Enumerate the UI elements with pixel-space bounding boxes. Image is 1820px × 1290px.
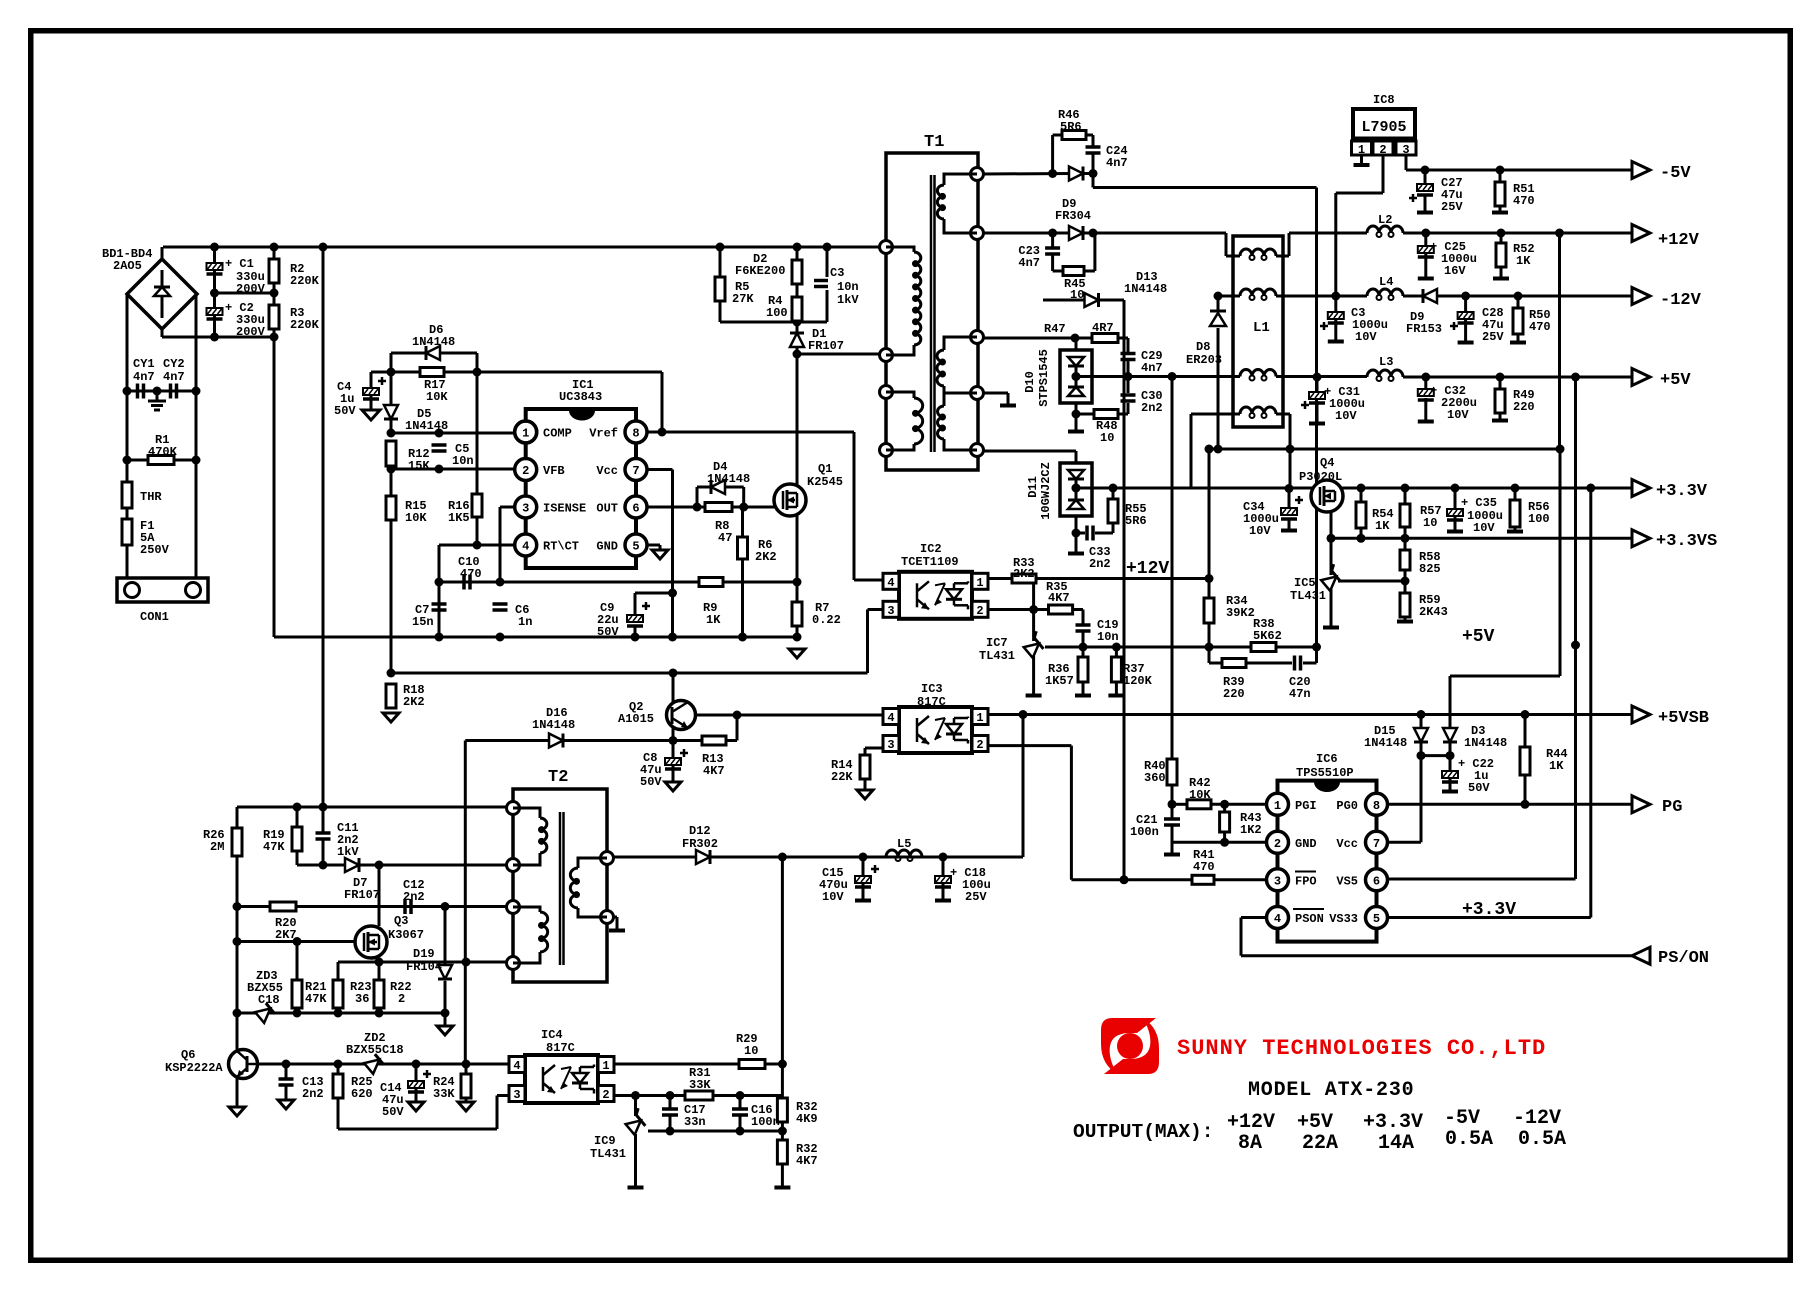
svg-text:4K7: 4K7 [1048, 591, 1070, 605]
svg-text:OUT: OUT [596, 502, 618, 516]
svg-text:3: 3 [887, 604, 894, 618]
svg-text:1N4148: 1N4148 [412, 335, 455, 349]
svg-text:2n2: 2n2 [1141, 401, 1163, 415]
svg-text:2M: 2M [210, 840, 224, 854]
svg-text:10GWJ2CZ: 10GWJ2CZ [1039, 462, 1053, 520]
svg-text:50V: 50V [640, 775, 662, 789]
svg-text:470: 470 [1529, 320, 1551, 334]
svg-text:1: 1 [1358, 143, 1365, 157]
svg-text:825: 825 [1419, 562, 1441, 576]
svg-text:+3.3V: +3.3V [1363, 1111, 1423, 1134]
svg-text:2n2: 2n2 [1089, 557, 1111, 571]
svg-text:10: 10 [1100, 431, 1114, 445]
svg-text:R47: R47 [1044, 322, 1066, 336]
svg-text:50V: 50V [334, 404, 356, 418]
svg-text:3: 3 [1274, 874, 1281, 888]
svg-text:4n7: 4n7 [133, 370, 155, 384]
svg-text:10K: 10K [426, 390, 448, 404]
svg-text:2: 2 [976, 738, 983, 752]
svg-text:5: 5 [632, 540, 639, 554]
svg-text:33n: 33n [684, 1115, 706, 1129]
svg-text:1: 1 [976, 576, 983, 590]
svg-text:Q1: Q1 [818, 462, 832, 476]
svg-text:GND: GND [596, 540, 618, 554]
svg-text:4K7: 4K7 [796, 1154, 818, 1168]
svg-text:100: 100 [1528, 512, 1550, 526]
svg-text:4n7: 4n7 [1018, 256, 1040, 270]
svg-text:16V: 16V [1444, 264, 1466, 278]
svg-text:ISENSE: ISENSE [543, 502, 586, 516]
svg-text:IC3: IC3 [921, 682, 943, 696]
svg-text:15n: 15n [412, 615, 434, 629]
svg-text:22A: 22A [1302, 1132, 1338, 1155]
svg-text:2K43: 2K43 [1419, 605, 1448, 619]
svg-text:100n: 100n [1130, 825, 1159, 839]
svg-text:1kV: 1kV [337, 845, 359, 859]
svg-text:COMP: COMP [543, 427, 572, 441]
svg-text:10K: 10K [1189, 788, 1211, 802]
svg-text:47n: 47n [1289, 687, 1311, 701]
svg-text:PG0: PG0 [1336, 799, 1358, 813]
svg-text:4n7: 4n7 [1106, 156, 1128, 170]
svg-text:25V: 25V [1482, 330, 1504, 344]
svg-text:IC2: IC2 [920, 542, 942, 556]
svg-text:L5: L5 [897, 837, 911, 851]
svg-text:+5V: +5V [1660, 371, 1691, 390]
svg-text:A1015: A1015 [618, 712, 654, 726]
svg-text:L4: L4 [1379, 275, 1393, 289]
svg-text:2: 2 [1274, 837, 1281, 851]
svg-text:1N4148: 1N4148 [1464, 736, 1507, 750]
svg-text:220: 220 [1513, 400, 1535, 414]
svg-text:-5V: -5V [1444, 1107, 1480, 1130]
svg-text:IC7: IC7 [986, 636, 1008, 650]
svg-text:0.22: 0.22 [812, 613, 841, 627]
svg-text:1: 1 [602, 1059, 609, 1073]
svg-text:7: 7 [632, 464, 639, 478]
svg-text:817C: 817C [546, 1041, 575, 1055]
svg-text:22K: 22K [831, 770, 853, 784]
svg-text:47K: 47K [263, 840, 285, 854]
svg-text:L3: L3 [1379, 355, 1393, 369]
svg-text:1K57: 1K57 [1045, 674, 1074, 688]
svg-text:4: 4 [513, 1059, 520, 1073]
svg-text:2: 2 [602, 1088, 609, 1102]
svg-text:+5V: +5V [1297, 1111, 1333, 1134]
svg-text:4n7: 4n7 [163, 370, 185, 384]
svg-text:CON1: CON1 [140, 610, 169, 624]
svg-text:+3.3VS: +3.3VS [1656, 532, 1717, 551]
svg-text:7: 7 [1373, 837, 1380, 851]
svg-text:1: 1 [1274, 799, 1281, 813]
svg-text:2K2: 2K2 [1013, 567, 1035, 581]
svg-text:33K: 33K [689, 1078, 711, 1092]
svg-text:100n: 100n [751, 1115, 780, 1129]
svg-text:5: 5 [1373, 912, 1380, 926]
svg-text:1n: 1n [518, 615, 532, 629]
svg-text:L1: L1 [1253, 320, 1270, 336]
svg-text:-12V: -12V [1660, 291, 1702, 310]
svg-text:C18: C18 [258, 993, 280, 1007]
svg-text:50V: 50V [597, 625, 619, 639]
svg-text:SUNNY TECHNOLOGIES CO.,LTD: SUNNY TECHNOLOGIES CO.,LTD [1177, 1036, 1546, 1061]
svg-text:25V: 25V [1441, 200, 1463, 214]
svg-text:FR304: FR304 [1055, 209, 1091, 223]
svg-text:50V: 50V [382, 1105, 404, 1119]
svg-text:6: 6 [1373, 874, 1380, 888]
svg-text:8: 8 [632, 427, 639, 441]
svg-text:FR107: FR107 [344, 888, 380, 902]
svg-text:Q3: Q3 [394, 914, 408, 928]
svg-text:C3: C3 [830, 266, 844, 280]
svg-text:+5V: +5V [1462, 627, 1495, 647]
svg-text:RT\CT: RT\CT [543, 540, 579, 554]
svg-text:817C: 817C [917, 695, 946, 709]
svg-text:D10: D10 [1023, 371, 1037, 393]
svg-text:360: 360 [1144, 771, 1166, 785]
svg-text:220K: 220K [290, 318, 320, 332]
svg-text:IC9: IC9 [594, 1134, 616, 1148]
svg-text:620: 620 [351, 1087, 373, 1101]
svg-text:-12V: -12V [1513, 1107, 1561, 1130]
svg-text:+5VSB: +5VSB [1658, 709, 1709, 728]
svg-text:5R6: 5R6 [1060, 120, 1082, 134]
svg-text:27K: 27K [732, 292, 754, 306]
svg-text:10n: 10n [1097, 630, 1119, 644]
svg-text:BZX55C18: BZX55C18 [346, 1043, 404, 1057]
svg-text:PSON: PSON [1295, 912, 1324, 926]
svg-text:MODEL ATX-230: MODEL ATX-230 [1248, 1079, 1414, 1102]
svg-text:Q6: Q6 [181, 1048, 195, 1062]
svg-text:+ C35: + C35 [1461, 496, 1497, 510]
svg-text:UC3843: UC3843 [559, 390, 602, 404]
svg-text:TL431: TL431 [1290, 589, 1326, 603]
svg-text:+12V: +12V [1658, 231, 1700, 250]
svg-text:100: 100 [766, 306, 788, 320]
svg-text:15K: 15K [408, 459, 430, 473]
svg-text:D11: D11 [1026, 476, 1040, 498]
svg-text:Q4: Q4 [1320, 456, 1334, 470]
svg-text:1N4148: 1N4148 [532, 718, 575, 732]
svg-text:IC5: IC5 [1294, 576, 1316, 590]
svg-text:250V: 250V [140, 543, 170, 557]
svg-text:10: 10 [1423, 516, 1437, 530]
svg-text:4K7: 4K7 [703, 764, 725, 778]
svg-text:200V: 200V [236, 282, 266, 296]
svg-text:10V: 10V [1249, 524, 1271, 538]
svg-text:10V: 10V [1447, 408, 1469, 422]
svg-text:4: 4 [887, 711, 894, 725]
svg-text:2: 2 [976, 604, 983, 618]
svg-text:2n2: 2n2 [403, 890, 425, 904]
svg-text:TPS5510P: TPS5510P [1296, 766, 1354, 780]
svg-text:1N4148: 1N4148 [1124, 282, 1167, 296]
svg-text:TL431: TL431 [979, 649, 1015, 663]
svg-text:Vref: Vref [589, 427, 618, 441]
svg-text:VS5: VS5 [1336, 874, 1358, 888]
svg-text:TCET1109: TCET1109 [901, 555, 959, 569]
svg-text:-5V: -5V [1660, 164, 1691, 183]
svg-text:10n: 10n [837, 280, 859, 294]
svg-text:10V: 10V [822, 890, 844, 904]
svg-text:10: 10 [1070, 288, 1084, 302]
svg-text:47K: 47K [305, 992, 327, 1006]
svg-text:PS/ON: PS/ON [1658, 949, 1709, 968]
svg-text:1N4148: 1N4148 [1364, 736, 1407, 750]
svg-text:10V: 10V [1473, 521, 1495, 535]
svg-text:T2: T2 [548, 768, 568, 787]
svg-text:GND: GND [1295, 837, 1317, 851]
svg-text:2: 2 [398, 992, 405, 1006]
svg-text:0.5A: 0.5A [1518, 1128, 1566, 1151]
svg-text:TL431: TL431 [590, 1147, 626, 1161]
svg-text:220K: 220K [290, 274, 320, 288]
svg-text:Vcc: Vcc [596, 464, 618, 478]
svg-text:FR153: FR153 [1406, 322, 1442, 336]
svg-text:200V: 200V [236, 325, 266, 339]
svg-text:2K7: 2K7 [275, 928, 297, 942]
svg-text:1K: 1K [1375, 519, 1390, 533]
svg-text:2K2: 2K2 [755, 550, 777, 564]
svg-text:14A: 14A [1378, 1132, 1414, 1155]
svg-text:0.5A: 0.5A [1445, 1128, 1493, 1151]
svg-text:D19: D19 [413, 947, 435, 961]
svg-text:PGI: PGI [1295, 799, 1317, 813]
svg-text:470: 470 [1193, 860, 1215, 874]
svg-text:4K9: 4K9 [796, 1112, 818, 1126]
svg-text:+3.3V: +3.3V [1462, 900, 1516, 920]
svg-text:4n7: 4n7 [1141, 361, 1163, 375]
svg-text:K3067: K3067 [388, 928, 424, 942]
svg-text:IC4: IC4 [541, 1028, 563, 1042]
svg-text:36: 36 [355, 992, 369, 1006]
svg-text:50V: 50V [1468, 781, 1490, 795]
svg-text:10n: 10n [452, 454, 474, 468]
svg-text:10V: 10V [1355, 330, 1377, 344]
svg-text:1K: 1K [1549, 759, 1564, 773]
svg-text:ER203: ER203 [1186, 353, 1222, 367]
svg-text:4: 4 [522, 540, 529, 554]
svg-text:33K: 33K [433, 1087, 455, 1101]
svg-text:120K: 120K [1123, 674, 1153, 688]
svg-text:+12V: +12V [1227, 1111, 1275, 1134]
svg-text:3: 3 [522, 502, 529, 516]
svg-text:470K: 470K [148, 445, 178, 459]
svg-text:1N4148: 1N4148 [707, 472, 750, 486]
svg-text:4: 4 [887, 576, 894, 590]
svg-text:2K2: 2K2 [403, 695, 425, 709]
svg-text:8A: 8A [1238, 1132, 1262, 1155]
svg-text:F6KE200: F6KE200 [735, 264, 785, 278]
svg-text:10K: 10K [405, 511, 427, 525]
svg-text:+ C1: + C1 [225, 257, 254, 271]
svg-text:470: 470 [460, 567, 482, 581]
svg-text:8: 8 [1373, 799, 1380, 813]
svg-text:THR: THR [140, 490, 162, 504]
svg-text:PG: PG [1662, 798, 1682, 817]
svg-text:1K5: 1K5 [448, 511, 470, 525]
svg-text:+12V: +12V [1126, 559, 1169, 579]
svg-text:4: 4 [1274, 912, 1281, 926]
svg-text:1K: 1K [1516, 254, 1531, 268]
svg-text:47: 47 [718, 531, 732, 545]
svg-text:1N4148: 1N4148 [405, 419, 448, 433]
svg-text:D12: D12 [689, 824, 711, 838]
svg-text:IC8: IC8 [1373, 93, 1395, 107]
svg-text:FR107: FR107 [808, 339, 844, 353]
svg-text:1K2: 1K2 [1240, 823, 1262, 837]
svg-text:2AO5: 2AO5 [113, 259, 142, 273]
svg-text:2: 2 [522, 464, 529, 478]
svg-text:FR104: FR104 [406, 960, 442, 974]
svg-text:3: 3 [1402, 143, 1409, 157]
svg-text:KSP2222A: KSP2222A [165, 1061, 223, 1075]
svg-text:1: 1 [522, 427, 529, 441]
svg-text:+3.3V: +3.3V [1656, 482, 1708, 501]
svg-text:IC6: IC6 [1316, 752, 1338, 766]
svg-text:FPO: FPO [1295, 874, 1317, 888]
svg-text:Vcc: Vcc [1336, 837, 1358, 851]
svg-text:2: 2 [1379, 143, 1386, 157]
svg-text:39K2: 39K2 [1226, 606, 1255, 620]
svg-text:L7905: L7905 [1361, 119, 1406, 136]
svg-text:3: 3 [513, 1088, 520, 1102]
svg-text:3: 3 [887, 738, 894, 752]
svg-text:P3020L: P3020L [1299, 470, 1342, 484]
svg-text:STPS1545: STPS1545 [1037, 349, 1051, 407]
svg-text:CY2: CY2 [163, 357, 185, 371]
svg-text:OUTPUT(MAX):: OUTPUT(MAX): [1073, 1121, 1213, 1143]
svg-text:25V: 25V [965, 890, 987, 904]
svg-text:5R6: 5R6 [1125, 514, 1147, 528]
svg-text:5K62: 5K62 [1253, 629, 1282, 643]
svg-text:FR302: FR302 [682, 837, 718, 851]
svg-text:2n2: 2n2 [302, 1087, 324, 1101]
svg-text:220: 220 [1223, 687, 1245, 701]
svg-text:4R7: 4R7 [1092, 321, 1114, 335]
svg-text:CY1: CY1 [133, 357, 155, 371]
svg-text:1kV: 1kV [837, 293, 859, 307]
svg-text:VS33: VS33 [1329, 912, 1358, 926]
svg-text:6: 6 [632, 502, 639, 516]
svg-text:L2: L2 [1378, 213, 1392, 227]
svg-text:1: 1 [976, 711, 983, 725]
svg-text:D8: D8 [1196, 340, 1210, 354]
svg-text:10: 10 [744, 1044, 758, 1058]
svg-text:470: 470 [1513, 194, 1535, 208]
svg-text:10V: 10V [1335, 409, 1357, 423]
svg-text:1K: 1K [706, 613, 721, 627]
svg-text:K2545: K2545 [807, 475, 843, 489]
svg-text:VFB: VFB [543, 464, 565, 478]
svg-text:T1: T1 [924, 133, 944, 152]
